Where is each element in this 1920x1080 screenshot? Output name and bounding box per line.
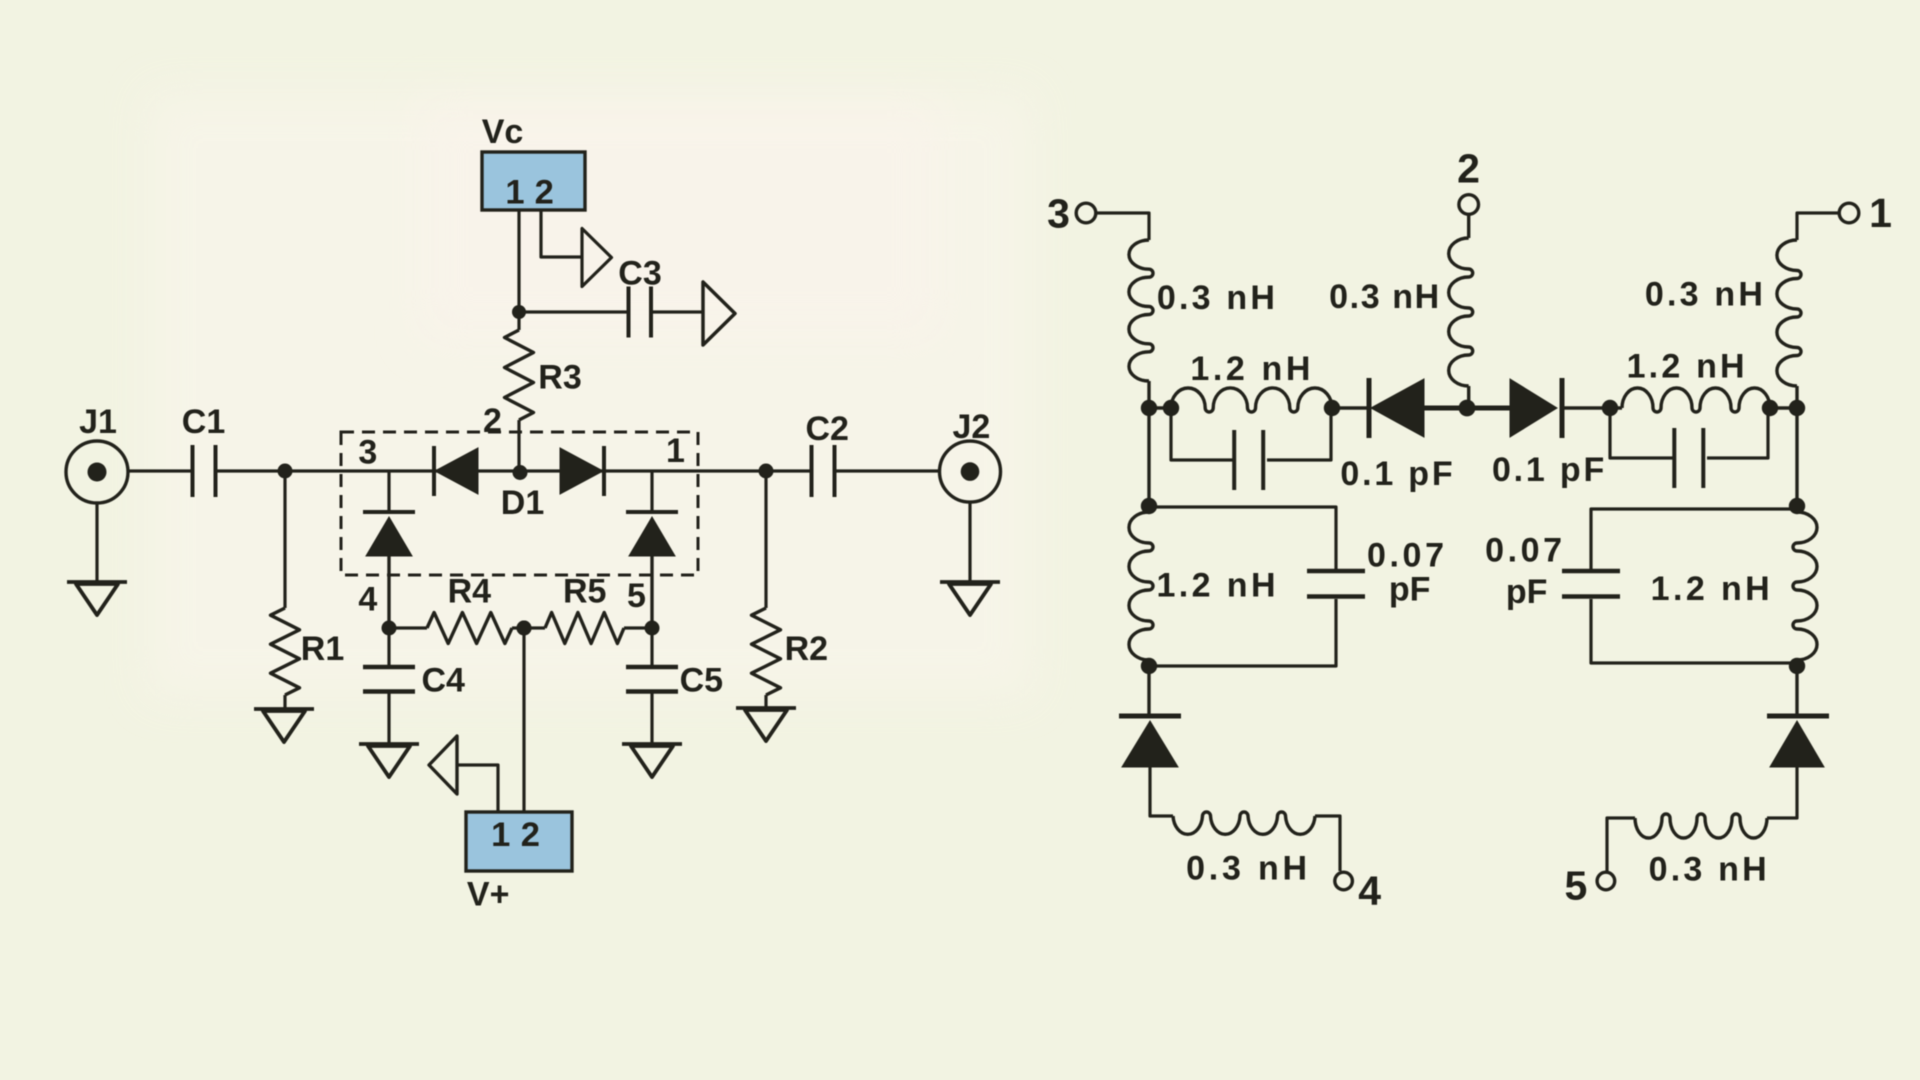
node bbox=[278, 464, 293, 479]
node bbox=[517, 621, 532, 636]
inductor 0.3 nH (port4 arm) bbox=[1173, 812, 1315, 834]
ground bbox=[254, 709, 314, 742]
svg-text:Vc: Vc bbox=[482, 113, 524, 151]
ground bbox=[67, 582, 127, 615]
port 5 bbox=[1564, 863, 1614, 909]
diode package D1 dashed outline bbox=[341, 432, 698, 575]
resistor R2 bbox=[752, 464, 829, 709]
port 3 bbox=[1047, 191, 1096, 237]
ground bbox=[622, 744, 682, 777]
svg-text:4: 4 bbox=[358, 581, 377, 619]
svg-text:0.1 pF: 0.1 pF bbox=[1340, 455, 1455, 493]
node bbox=[1762, 400, 1778, 416]
node bbox=[1789, 658, 1805, 674]
wire bbox=[836, 469, 942, 472]
svg-text:1.2 nH: 1.2 nH bbox=[1156, 567, 1278, 605]
wire bbox=[127, 469, 193, 472]
svg-text:J2: J2 bbox=[952, 408, 990, 446]
wire bbox=[1149, 507, 1336, 569]
svg-text:1.2 nH: 1.2 nH bbox=[1627, 348, 1748, 386]
wire bbox=[1591, 599, 1797, 663]
svg-text:0.07: 0.07 bbox=[1485, 532, 1566, 570]
diode (right, pointing right) bbox=[1510, 378, 1562, 438]
node bbox=[1324, 400, 1340, 416]
node bbox=[645, 621, 660, 636]
wire bbox=[1332, 406, 1367, 409]
Vc source box bbox=[482, 113, 585, 212]
wire bbox=[1563, 406, 1622, 409]
resistor R4 bbox=[389, 573, 524, 644]
wire bbox=[217, 469, 812, 472]
wire bbox=[1149, 599, 1336, 666]
wire bbox=[1147, 408, 1150, 506]
svg-text:R3: R3 bbox=[538, 359, 581, 397]
svg-text:R1: R1 bbox=[301, 630, 344, 668]
node bbox=[1141, 400, 1157, 416]
resistor R5 bbox=[524, 573, 652, 644]
node bbox=[382, 621, 397, 636]
connector J1 bbox=[66, 403, 128, 503]
V+ source box bbox=[466, 812, 572, 913]
wire bbox=[1467, 214, 1470, 238]
capacitor 0.07 pF (right) bbox=[1485, 532, 1620, 612]
svg-text:1.2 nH: 1.2 nH bbox=[1651, 570, 1773, 608]
net arrow bbox=[582, 229, 612, 287]
wire bbox=[1315, 816, 1340, 871]
wire bbox=[1795, 408, 1798, 506]
node bbox=[513, 465, 528, 480]
node bbox=[1141, 498, 1157, 514]
wire bbox=[1467, 386, 1470, 408]
svg-text:3: 3 bbox=[1047, 191, 1070, 237]
inductor 1.2 nH (right vertical) bbox=[1793, 512, 1817, 660]
wire bbox=[1147, 666, 1150, 716]
wire bbox=[1147, 381, 1150, 408]
resistor R3 bbox=[505, 312, 582, 471]
wire bbox=[517, 210, 520, 312]
inductor 0.3 nH (port1 arm) bbox=[1777, 240, 1801, 386]
diode D1a (left, pointing left) bbox=[434, 446, 478, 496]
diode (lower right, pointing up) bbox=[1767, 716, 1829, 767]
inductor 1.2 nH (right horizontal) bbox=[1622, 388, 1770, 412]
capacitor C2 bbox=[805, 410, 848, 497]
wire bbox=[968, 501, 971, 582]
svg-text:0.3 nH: 0.3 nH bbox=[1329, 278, 1441, 316]
port 1 bbox=[1839, 190, 1892, 236]
wire bbox=[1795, 386, 1798, 408]
svg-text:pF: pF bbox=[1506, 573, 1548, 611]
capacitor 0.07 pF (left) bbox=[1307, 537, 1448, 609]
ground bbox=[736, 708, 796, 741]
svg-text:5: 5 bbox=[1564, 863, 1587, 909]
diode D1d (right vertical, pointing up) bbox=[626, 471, 678, 628]
wire bbox=[519, 310, 628, 313]
port 2 bbox=[1457, 145, 1480, 214]
svg-text:C4: C4 bbox=[421, 662, 465, 700]
port 4 bbox=[1335, 867, 1381, 913]
inductor 0.3 nH (port2 arm) bbox=[1449, 238, 1473, 386]
node bbox=[517, 621, 532, 636]
svg-text:0.3 nH: 0.3 nH bbox=[1157, 279, 1278, 317]
diode (left, pointing left) bbox=[1369, 378, 1424, 438]
capacitor C3 bbox=[618, 255, 661, 338]
ground bbox=[940, 582, 1000, 615]
svg-text:1: 1 bbox=[491, 816, 510, 854]
svg-text:C1: C1 bbox=[182, 403, 225, 441]
wire bbox=[1770, 406, 1797, 409]
wire bbox=[651, 310, 703, 313]
net arrow bbox=[703, 282, 735, 345]
ground bbox=[359, 744, 419, 777]
svg-text:R2: R2 bbox=[785, 630, 828, 668]
svg-text:5: 5 bbox=[627, 577, 646, 615]
capacitor C5 bbox=[626, 628, 723, 744]
svg-text:1: 1 bbox=[666, 432, 685, 470]
svg-text:1: 1 bbox=[1869, 190, 1892, 236]
capacitor C1 bbox=[182, 403, 225, 497]
node bbox=[512, 305, 526, 319]
svg-text:0.1 pF: 0.1 pF bbox=[1492, 451, 1607, 489]
wire bbox=[95, 502, 98, 583]
node bbox=[1789, 498, 1805, 514]
wire bbox=[1149, 406, 1171, 409]
diode D1c (left vertical, pointing up) bbox=[363, 471, 415, 628]
inductor 0.3 nH (port3 arm) bbox=[1129, 240, 1153, 381]
wire bbox=[457, 765, 498, 812]
svg-text:C3: C3 bbox=[618, 255, 661, 293]
svg-text:R4: R4 bbox=[448, 573, 492, 611]
wire bbox=[1767, 767, 1797, 818]
wire bbox=[522, 628, 525, 812]
svg-text:pF: pF bbox=[1389, 571, 1431, 609]
svg-text:2: 2 bbox=[521, 816, 540, 854]
svg-text:0.07: 0.07 bbox=[1367, 537, 1448, 575]
svg-text:3: 3 bbox=[358, 433, 377, 471]
inductor 1.2 nH (left horizontal) bbox=[1171, 388, 1332, 412]
inductor 1.2 nH (left vertical) bbox=[1129, 512, 1153, 660]
capacitor 0.1 pF (left) bbox=[1171, 414, 1455, 493]
diode (lower left, pointing up) bbox=[1119, 716, 1181, 767]
node bbox=[1459, 400, 1476, 417]
wire bbox=[1096, 213, 1149, 240]
svg-text:2: 2 bbox=[535, 174, 554, 212]
svg-text:J1: J1 bbox=[79, 403, 117, 441]
wire bbox=[1424, 406, 1510, 411]
wire bbox=[1795, 666, 1798, 716]
wire bbox=[1150, 767, 1173, 816]
svg-text:4: 4 bbox=[1358, 867, 1381, 913]
inductor 0.3 nH (port5 arm) bbox=[1635, 814, 1767, 838]
svg-text:0.3 nH: 0.3 nH bbox=[1186, 849, 1311, 887]
net arrow bbox=[429, 736, 457, 794]
svg-text:1: 1 bbox=[505, 174, 524, 212]
svg-text:D1: D1 bbox=[501, 484, 544, 522]
svg-text:1.2 nH: 1.2 nH bbox=[1190, 350, 1314, 388]
svg-text:0.3 nH: 0.3 nH bbox=[1645, 276, 1766, 314]
wire bbox=[1797, 213, 1839, 240]
svg-text:2: 2 bbox=[483, 402, 502, 440]
wire bbox=[541, 210, 582, 257]
wire bbox=[1607, 818, 1635, 871]
capacitor 0.1 pF (right) bbox=[1492, 414, 1768, 489]
svg-text:C2: C2 bbox=[805, 410, 848, 448]
wire bbox=[1591, 509, 1797, 569]
node bbox=[1141, 658, 1157, 674]
svg-text:0.3 nH: 0.3 nH bbox=[1649, 850, 1770, 888]
svg-text:2: 2 bbox=[1457, 145, 1480, 191]
capacitor C4 bbox=[363, 628, 465, 744]
diode D1b (right, pointing right) bbox=[560, 446, 604, 496]
node bbox=[1163, 400, 1179, 416]
svg-text:V+: V+ bbox=[467, 875, 510, 913]
node bbox=[1789, 400, 1805, 416]
svg-text:C5: C5 bbox=[680, 662, 723, 700]
node bbox=[1602, 400, 1618, 416]
resistor R1 bbox=[271, 471, 345, 709]
svg-text:R5: R5 bbox=[563, 573, 606, 611]
connector J2 bbox=[940, 408, 1001, 502]
